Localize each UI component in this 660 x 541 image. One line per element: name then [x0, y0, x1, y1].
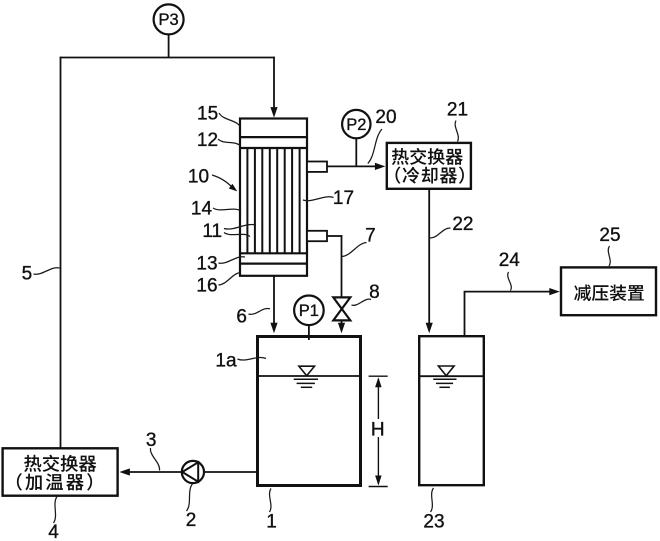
svg-text:17: 17: [333, 188, 354, 209]
pump 2: [182, 461, 204, 483]
valve 8: [333, 297, 350, 320]
gauge P2: [342, 110, 370, 138]
label 16: [196, 273, 241, 297]
svg-text:22: 22: [452, 214, 473, 235]
heat exchanger (heater) 4 box: [3, 448, 118, 495]
label 23: [423, 488, 444, 532]
svg-text:3: 3: [146, 430, 157, 451]
wire line 22 cooler to tank 23: [426, 189, 433, 333]
gauge P3: [154, 4, 184, 34]
dimension H: [369, 376, 388, 486]
tank 1: [258, 337, 361, 486]
wire feed into module: [270, 57, 277, 118]
wire line 3 tank to pump: [204, 471, 256, 473]
label 20: [368, 107, 397, 163]
label 1: [266, 489, 277, 533]
cooler text line1: [392, 148, 463, 165]
svg-text:1: 1: [266, 511, 277, 532]
svg-text:16: 16: [196, 275, 217, 296]
svg-text:21: 21: [447, 99, 468, 120]
svg-text:P2: P2: [346, 116, 366, 134]
module lower outlet port: [307, 231, 327, 241]
svg-text:15: 15: [197, 104, 218, 125]
svg-text:10: 10: [188, 166, 209, 187]
wire P3 stem: [168, 34, 170, 57]
wire top header: [60, 57, 275, 59]
label 3: [146, 430, 160, 470]
label 13: [196, 253, 245, 274]
label 2: [186, 484, 197, 531]
reducer text: [574, 284, 644, 301]
label 10 with arrow: [188, 166, 237, 191]
tank 1 water level symbol: [294, 366, 318, 387]
svg-text:12: 12: [197, 130, 218, 151]
svg-text:P3: P3: [159, 11, 179, 29]
module bottom cap line 16: [240, 263, 307, 265]
module top cap line 15: [240, 136, 307, 138]
tank 23 water line: [419, 375, 484, 377]
label 14: [191, 198, 241, 219]
gauge P1: [294, 296, 324, 326]
tank 23 water level symbol: [433, 366, 456, 387]
heater text line1: [24, 455, 96, 472]
wire line 24 tank 23 to reducer: [464, 288, 560, 336]
svg-text:1a: 1a: [215, 351, 237, 372]
label 25: [599, 225, 620, 266]
label 1a: [215, 351, 266, 372]
wire line 6 module to tank 1: [270, 276, 277, 334]
wire pump to heater: [119, 468, 181, 475]
label 4: [48, 497, 59, 541]
label 22: [430, 214, 474, 238]
wire P2 stem: [355, 138, 357, 166]
wire P1 stem: [308, 325, 310, 340]
membrane module 10 outer shell: [240, 119, 307, 276]
label 11: [202, 221, 256, 242]
wire valve outlet: [338, 320, 345, 333]
cooler text line2: [395, 167, 463, 184]
svg-text:4: 4: [48, 522, 59, 541]
label 8: [352, 282, 380, 306]
membrane tubes 11: [247, 148, 299, 253]
tank 1 water line: [258, 375, 361, 377]
module upper outlet port: [307, 162, 327, 172]
label 6: [236, 306, 270, 327]
wire line 20 to cooler: [327, 163, 385, 170]
svg-text:H: H: [371, 419, 385, 440]
wire line 5 left downcomer: [60, 57, 62, 449]
svg-text:13: 13: [196, 253, 217, 274]
label 17: [303, 188, 354, 209]
svg-text:23: 23: [423, 511, 444, 532]
svg-text:20: 20: [375, 107, 396, 128]
label 5: [22, 264, 60, 285]
tank 23: [419, 336, 484, 485]
svg-text:14: 14: [191, 198, 213, 219]
pressure reducer 25 box: [561, 267, 656, 315]
svg-text:2: 2: [186, 510, 197, 531]
module top tube sheet 12: [240, 147, 307, 149]
svg-text:7: 7: [365, 225, 376, 246]
label 24: [499, 250, 521, 290]
heater text line2: [17, 473, 92, 491]
module bottom tube sheet 13: [240, 252, 307, 254]
svg-text:25: 25: [599, 225, 620, 246]
svg-text:6: 6: [236, 306, 247, 327]
wire line 7 from lower port to valve: [327, 235, 342, 237]
svg-text:24: 24: [499, 250, 521, 271]
label 21: [447, 99, 468, 141]
svg-text:5: 5: [22, 264, 33, 285]
label 7: [342, 225, 376, 256]
label 15: [197, 104, 240, 128]
heat exchanger (cooler) 21 box: [387, 143, 471, 189]
label 12: [197, 130, 241, 151]
svg-text:P1: P1: [299, 302, 319, 320]
svg-text:11: 11: [202, 221, 222, 242]
